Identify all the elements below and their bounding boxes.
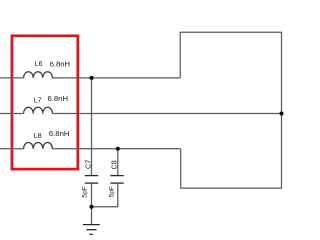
svg-text:5pF: 5pF	[109, 186, 116, 197]
svg-text:L8: L8	[34, 131, 42, 140]
svg-text:6.8nH: 6.8nH	[50, 60, 71, 69]
svg-text:6.8nH: 6.8nH	[49, 129, 70, 138]
svg-text:L6: L6	[35, 59, 43, 68]
svg-text:C7: C7	[84, 160, 93, 169]
svg-text:6.8nH: 6.8nH	[48, 94, 69, 103]
svg-text:C8: C8	[110, 160, 119, 169]
svg-text:L7: L7	[34, 96, 42, 105]
svg-text:5pF: 5pF	[82, 186, 89, 197]
